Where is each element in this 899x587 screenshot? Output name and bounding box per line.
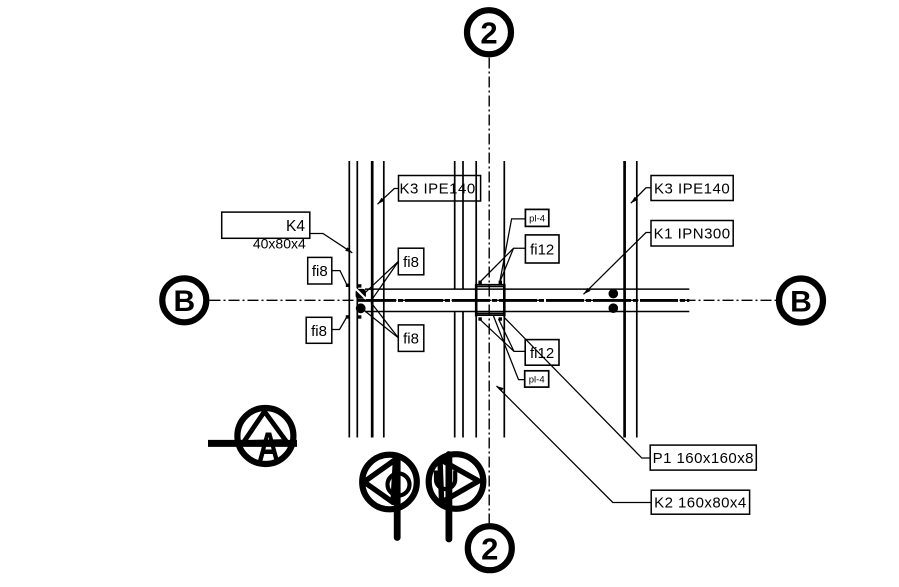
grid bubble 2 bottom (468, 526, 512, 570)
section symbol U triangle (points right) (440, 459, 479, 502)
secondary tube upper-left line (interrupted by beam) (454, 161, 456, 289)
member K3 IPE140 right beam thin flange line (636, 161, 638, 438)
splice plate left vertical thick edge (475, 284, 478, 317)
label box pl-4 upper (525, 209, 548, 226)
grid line B (horizontal dash-dot) (210, 299, 777, 301)
section symbol O circle (362, 455, 417, 510)
bolt lower at right connection (609, 303, 619, 313)
weld tick on K4 edge lower (358, 315, 361, 318)
arrowhead K3 right leader (631, 197, 638, 203)
grid bubble B left (162, 278, 206, 322)
beam K1 IPN300 top edge (365, 288, 689, 290)
weld square top-right (499, 281, 502, 284)
svg-text:2: 2 (480, 15, 497, 50)
grid bubble 2 top (467, 10, 511, 54)
svg-text:pl-4: pl-4 (529, 213, 545, 224)
section symbol U circle (429, 454, 484, 509)
member K3 IPE140 left beam thick flange line (371, 161, 374, 438)
section symbol O letter ring (388, 474, 410, 496)
svg-text:K4: K4 (286, 218, 305, 235)
leader P1 (crosses fi12 box) (505, 318, 651, 458)
arrowhead K3 left leader (378, 198, 385, 204)
leader for K4 label (310, 234, 353, 253)
svg-text:fi8: fi8 (403, 331, 419, 348)
section symbol A bar (208, 440, 297, 447)
arrowhead K4 leader (345, 247, 352, 253)
svg-text:pl-4: pl-4 (529, 375, 545, 386)
label box K4 (222, 212, 310, 238)
leader fi8 upper-right line 2 (372, 262, 399, 301)
leader fi12 lower line 1 (481, 320, 526, 352)
bolt upper at left connection (356, 289, 366, 299)
bolt upper at right connection (609, 289, 619, 299)
member K2 tube 160x80x4 right edge (503, 161, 505, 438)
arrowhead K1 leader (584, 288, 591, 294)
label box fi12 lower (525, 340, 559, 366)
leader fi12 upper line 1 (481, 248, 525, 281)
leader fi12 lower line 2 (499, 319, 515, 352)
leader K2 (497, 386, 652, 503)
member K4 tube 40x80x4 right edge (356, 161, 358, 438)
svg-text:fi8: fi8 (312, 263, 328, 280)
grid line 2 (vertical dash-dot) (488, 58, 490, 524)
label box fi8 upper-right (398, 248, 424, 275)
leader fi8 lower-right line 2 (371, 303, 398, 338)
label box K2 160x80x4 (651, 490, 749, 514)
section symbol U stem (445, 455, 452, 540)
label box fi12 upper (525, 235, 559, 263)
leader pl-4 upper (500, 219, 526, 282)
section symbol O triangle (points left) (364, 460, 396, 503)
leader fi8 lower-left (332, 318, 347, 330)
svg-text:K1 IPN300: K1 IPN300 (654, 226, 731, 243)
grid bubble B right (779, 279, 823, 323)
weld tick on K4 edge upper (358, 284, 361, 287)
weld square bottom-left (478, 317, 481, 320)
svg-text:fi8: fi8 (311, 323, 327, 340)
splice plate P1 top edge line 2 (476, 286, 505, 288)
label box K3 IPE140 left (399, 176, 481, 202)
weld square top-left (478, 281, 481, 284)
splice plate P1 bottom edge line 1 (476, 312, 505, 314)
svg-text:2: 2 (481, 531, 498, 566)
svg-text:A: A (257, 424, 280, 471)
svg-text:fi12: fi12 (530, 242, 554, 259)
secondary tube lower-right line (462, 312, 464, 438)
leader for K3 right label (631, 188, 651, 203)
section symbol A circle (237, 408, 293, 464)
beam K1 heavy centre dashed line (358, 299, 689, 302)
bolt lower at left connection (356, 303, 366, 313)
label box P1 160x160x8 (650, 445, 756, 470)
label box fi8 lower-left (306, 317, 332, 343)
leader for K3 left label (378, 189, 399, 205)
section symbol O stem (394, 456, 401, 538)
section symbol U letter (436, 471, 455, 490)
svg-text:K2 160x80x4: K2 160x80x4 (654, 495, 747, 512)
label box fi8 lower-right (398, 325, 424, 352)
member K3 IPE140 right beam thick flange line (623, 161, 626, 438)
white slash across upper bolt (355, 288, 366, 299)
label box K1 IPN300 (651, 221, 733, 247)
svg-text:40x80x4: 40x80x4 (253, 236, 306, 252)
member K3 IPE140 left beam thin flange line (383, 161, 385, 438)
label box K3 IPE140 right (651, 176, 733, 201)
secondary tube lower-left line (454, 312, 456, 438)
label box fi8 upper-left (308, 257, 332, 284)
leader pl-4 lower (494, 316, 525, 380)
svg-text:fi8: fi8 (403, 254, 419, 271)
label box pl-4 lower (525, 371, 549, 387)
leader fi8 upper-right line 1 (366, 262, 399, 293)
splice plate P1 bottom edge line 2 (476, 314, 505, 316)
arrowhead K2 leader (497, 386, 504, 392)
leader fi8 lower-right line 1 (362, 309, 399, 338)
splice plate right vertical thick edge (503, 284, 506, 317)
weld tick left upper (fi8 leader target) (346, 284, 349, 287)
svg-text:B: B (173, 285, 195, 318)
splice plate P1 top edge line 1 (476, 284, 505, 286)
member K2 tube 160x80x4 left edge (475, 161, 477, 438)
svg-text:P1 160x160x8: P1 160x160x8 (653, 450, 754, 467)
secondary tube upper-right line (interrupted by beam) (462, 161, 464, 289)
svg-text:K3 IPE140: K3 IPE140 (654, 180, 730, 197)
section symbol A triangle (243, 412, 286, 443)
beam K1 IPN300 bottom edge (365, 311, 689, 313)
weld tick left lower (fi8 leader target) (346, 315, 349, 318)
svg-text:B: B (790, 285, 812, 318)
weld square bottom-right (499, 317, 502, 320)
member K4 tube 40x80x4 left edge (348, 161, 350, 438)
leader fi8 upper-left (332, 271, 347, 284)
leader for K1 label (584, 233, 652, 295)
leader fi12 upper line 2 (500, 248, 514, 282)
svg-text:K3 IPE140: K3 IPE140 (399, 181, 475, 198)
